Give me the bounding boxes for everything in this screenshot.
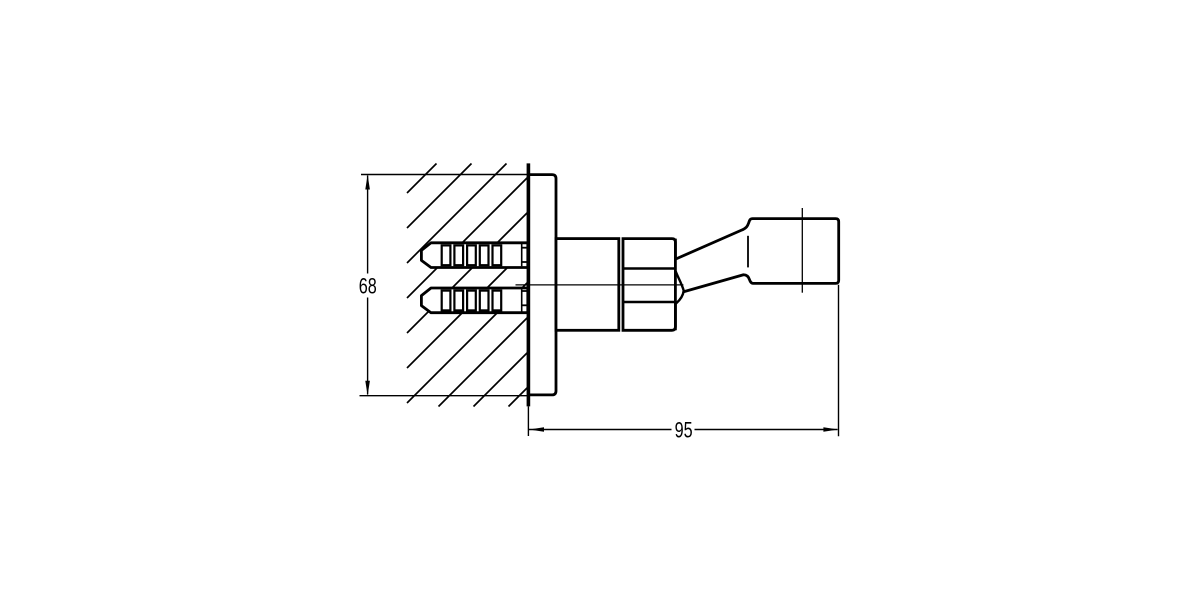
hex corner beak [676, 271, 684, 303]
wall face line [527, 163, 531, 406]
arrow left [529, 427, 544, 432]
extension line 95 right [838, 285, 840, 437]
extension line top (68) [361, 174, 528, 176]
wall plug top (anchor) [421, 243, 527, 268]
dimension 68 line upper [367, 176, 369, 274]
axis centerline [516, 284, 684, 286]
body cylinder [556, 239, 619, 331]
arm silhouette line [747, 236, 749, 268]
extension line bottom (68) [360, 395, 529, 397]
wall plug bottom (anchor) [421, 288, 527, 313]
wall hatch [407, 164, 529, 407]
hex right edge redraw [674, 239, 677, 331]
dimension 95 line right [695, 429, 838, 431]
screw shank top [522, 247, 528, 249]
svg-text:95: 95 [675, 418, 693, 443]
extension line 95 left [527, 406, 529, 436]
dimension 68 line lower [367, 298, 369, 395]
arrow right [823, 427, 838, 432]
screw shank bottom [522, 290, 528, 292]
hex nut section [623, 239, 675, 331]
arrow down [365, 381, 370, 396]
holder centerline [801, 208, 803, 293]
hex flat line lower [623, 301, 675, 304]
arm and holder block outline [676, 219, 839, 292]
arrow up [365, 175, 370, 190]
wall plate (escutcheon) [528, 175, 556, 395]
hex flat line upper [623, 267, 675, 270]
svg-text:68: 68 [359, 274, 377, 299]
arm and holder block fill [676, 219, 839, 292]
dimension 95 line left [529, 429, 672, 431]
